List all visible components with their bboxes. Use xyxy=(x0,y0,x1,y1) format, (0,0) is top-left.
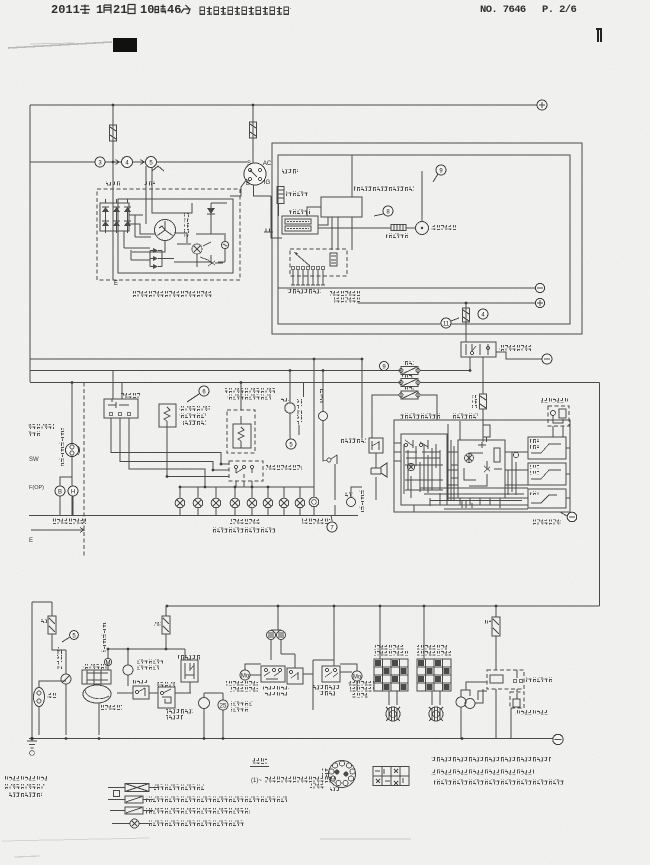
left feed jog xyxy=(32,602,52,735)
left note text xyxy=(5,776,47,781)
accessory bus 3 xyxy=(30,382,401,384)
wire ignition to coil primary xyxy=(254,185,283,238)
check terminal 5 xyxy=(146,157,157,168)
round connector symbol xyxy=(329,761,356,788)
svg-text:10: 10 xyxy=(140,3,154,17)
wiper motor unit box xyxy=(401,434,447,505)
power window breakers xyxy=(267,631,276,640)
zener diode xyxy=(207,208,215,214)
antenna motor pair xyxy=(456,697,466,707)
turn signal switch dashed box xyxy=(229,461,263,481)
label flasher 4way xyxy=(179,406,210,411)
svg-text:2011: 2011 xyxy=(51,3,80,17)
fuse (alternator feed) xyxy=(110,125,117,141)
wire S lead xyxy=(145,166,147,206)
svg-text:F(OP): F(OP) xyxy=(29,485,44,491)
wire B vertical through box xyxy=(112,189,114,273)
wire alternator feed xyxy=(112,105,114,189)
svg-text:B: B xyxy=(58,490,62,496)
wire fuse3 branch xyxy=(372,395,437,438)
lamp H xyxy=(68,486,78,496)
mirror motor right xyxy=(429,707,443,721)
label resistor 2 xyxy=(386,233,409,238)
wire relay supply xyxy=(465,303,467,342)
kanji 日 xyxy=(128,5,135,14)
label meter vertical xyxy=(57,647,62,669)
terminal label B(R) xyxy=(106,182,120,187)
label power antenna xyxy=(515,710,549,715)
wire fan down xyxy=(98,703,100,735)
battery minus terminal wiper xyxy=(567,512,577,522)
intermittent amp box xyxy=(458,440,505,498)
fax header center 日産自動車（株）お客さま相談室 xyxy=(199,6,291,17)
charge lamp xyxy=(221,241,228,248)
label mirror SW right xyxy=(417,645,447,650)
left margin labels xyxy=(28,424,54,429)
label resistor xyxy=(286,191,309,196)
ignition switch xyxy=(244,163,266,185)
assist side SW box xyxy=(322,666,340,682)
wire mirror left feeds xyxy=(380,606,397,705)
fuse heater xyxy=(51,602,53,616)
battery plus terminal 2 xyxy=(535,298,544,307)
wire fuse1 to relay xyxy=(420,370,470,372)
heater resistor box xyxy=(82,670,111,684)
lamp bus xyxy=(29,515,358,517)
amp resistor xyxy=(494,448,500,462)
antenna fuse xyxy=(495,606,497,617)
label wiper motor xyxy=(400,413,440,419)
label alternator (IC regulator) xyxy=(133,291,213,297)
label washer SW xyxy=(541,398,568,403)
oil pressure lamp xyxy=(285,403,295,413)
label spark plug xyxy=(287,289,321,295)
label door sw left xyxy=(302,519,330,525)
svg-text:IG: IG xyxy=(264,180,271,186)
faint scan streak xyxy=(8,42,112,48)
arrow xyxy=(134,160,144,165)
wire turn switch leads xyxy=(236,481,252,487)
diode bridge rectifiers xyxy=(102,207,131,226)
reverse lamp column wire xyxy=(71,383,73,516)
wire assist trunk xyxy=(333,606,335,666)
wire tach up xyxy=(421,171,423,222)
label fan motor vertical xyxy=(101,622,106,652)
wire ammeter down xyxy=(65,684,67,735)
AC relay box xyxy=(181,660,198,682)
legend fusible link symbol xyxy=(108,787,159,789)
amp capacitor xyxy=(464,442,502,486)
washer leads xyxy=(553,426,563,437)
label wiper SW xyxy=(533,520,561,525)
mirror SW grid right xyxy=(417,659,451,691)
check terminal 6 xyxy=(199,386,209,396)
condenser xyxy=(264,229,273,233)
label distributor xyxy=(330,291,360,296)
svg-text:NO. 7646: NO. 7646 xyxy=(480,4,526,16)
engine harness outer box xyxy=(272,143,582,334)
faint scan lines bottom xyxy=(320,838,411,840)
extra field wires xyxy=(124,215,151,260)
small pilcrow mark top right xyxy=(596,29,602,42)
wiper switch contact set low xyxy=(528,489,566,508)
battery minus bottom xyxy=(553,734,563,744)
fuse tail lamp xyxy=(480,394,487,409)
label L-low-R xyxy=(230,519,260,524)
door lamp column xyxy=(322,371,324,458)
wire minus feed xyxy=(278,287,535,289)
label oil pressure SW vertical xyxy=(297,399,302,425)
legend wattage circle xyxy=(112,823,149,825)
label reverse lamp SW vertical xyxy=(59,428,64,466)
label fan SW xyxy=(100,705,122,710)
kanji 月 xyxy=(104,5,111,14)
flasher unit (4way) box xyxy=(159,404,176,427)
switch column spine xyxy=(566,437,570,507)
driver side SW box xyxy=(261,666,285,682)
turn lamp distribution wire xyxy=(180,486,314,488)
reverse lamp switch xyxy=(66,444,79,457)
wire L lead xyxy=(152,166,158,203)
label power window OP right xyxy=(348,681,374,686)
wire relay output down xyxy=(469,357,471,371)
check terminal balloon xyxy=(70,631,79,640)
battery minus terminal xyxy=(535,283,544,292)
terminal E xyxy=(112,273,114,280)
power (IGN) relay box xyxy=(461,342,496,357)
wire ignition S lead left xyxy=(230,179,247,196)
internal harness wires xyxy=(394,443,528,506)
flasher (turn) dashed box xyxy=(227,410,255,453)
distributor dashed box xyxy=(290,249,347,276)
label reverse lamp xyxy=(52,519,86,525)
svg-text:H: H xyxy=(71,490,75,496)
check terminal 3 xyxy=(95,157,105,167)
label intermittent amp xyxy=(452,413,478,419)
wire fuse to ammeter xyxy=(52,634,66,674)
fuse (ignition feed) xyxy=(250,122,257,138)
battery plus terminal xyxy=(537,100,547,110)
svg-text:Mo: Mo xyxy=(241,674,250,680)
corner wire to earth xyxy=(560,512,567,516)
wire flasher lead xyxy=(167,427,229,477)
label mirror SW left xyxy=(374,645,404,650)
fan M motor xyxy=(104,658,111,665)
distributor pickup pair xyxy=(330,253,337,266)
fuse relay supply xyxy=(463,308,470,322)
label turn signal switch xyxy=(266,465,302,470)
mirror SW grid left xyxy=(374,659,408,691)
pilot lamp xyxy=(347,498,356,507)
battery minus terminal 3 xyxy=(542,354,552,364)
wire stator to regulator xyxy=(132,233,187,252)
right trunk vertical xyxy=(599,383,601,607)
wire field circuit xyxy=(152,203,227,234)
fan motor body xyxy=(83,685,111,703)
AC feed wire xyxy=(108,648,185,650)
svg-text:E: E xyxy=(29,538,33,544)
mirror motor left xyxy=(386,707,400,721)
transistor pair xyxy=(192,244,202,254)
label turn signal lamp xyxy=(213,527,275,533)
cut switch box xyxy=(133,686,149,699)
wire stator leads xyxy=(129,203,160,234)
fax header date text 2011年 1月21日 10時46分 xyxy=(51,3,190,17)
hazard switch label xyxy=(120,393,140,398)
buzzer trunk xyxy=(361,359,363,438)
wire lamp feeds xyxy=(60,477,73,515)
svg-text:AC: AC xyxy=(263,161,272,167)
svg-text:P. 2/6: P. 2/6 xyxy=(542,4,577,16)
air valve solenoid xyxy=(123,665,133,675)
amp transistor 1 xyxy=(465,454,474,463)
fuse AC xyxy=(165,606,167,616)
note title xyxy=(252,758,267,764)
arrow to alternator lead xyxy=(158,166,164,171)
wire mirror right feeds xyxy=(424,606,440,705)
terminal label S L xyxy=(144,182,155,187)
power window motor left xyxy=(240,670,250,680)
label buzzer vertical xyxy=(359,490,364,512)
svg-text:SW: SW xyxy=(29,457,39,463)
tach resistor xyxy=(391,225,406,231)
wire tail-fuse drop xyxy=(482,357,484,394)
wiper motor xyxy=(407,463,414,470)
room lamp unit xyxy=(34,688,45,707)
check terminal 5 (oil) xyxy=(286,439,296,449)
wire hazard leads nested elbows xyxy=(111,418,221,487)
relay switch box xyxy=(158,687,175,708)
label power window OP left xyxy=(226,681,258,686)
check terminal 7 xyxy=(331,515,332,521)
scanner black blob xyxy=(113,38,137,52)
wire bottom row xyxy=(174,262,225,267)
lamp B xyxy=(55,486,65,496)
buzzer horn xyxy=(371,463,387,477)
svg-text:M: M xyxy=(106,661,111,667)
kanji 時 xyxy=(155,5,166,14)
second window SW box xyxy=(287,668,303,684)
wiper motor contacts xyxy=(405,440,440,498)
svg-text:1: 1 xyxy=(96,3,103,17)
label room lamp vertical xyxy=(320,388,325,405)
top supply bus xyxy=(30,104,537,106)
ground symbol xyxy=(27,735,37,748)
check terminal 4 (lower) xyxy=(478,309,488,319)
label transistor igniter xyxy=(354,186,414,191)
label cut SW xyxy=(132,680,149,685)
span arrow xyxy=(31,528,84,533)
room lamp column xyxy=(313,359,315,497)
washer switch dashed box xyxy=(548,406,569,426)
label IGN SW xyxy=(282,169,298,174)
accessory bus 2 xyxy=(30,370,401,372)
bottom earth bus xyxy=(29,738,553,740)
amp feed resistor xyxy=(483,425,490,437)
assist motor xyxy=(352,671,362,681)
ballast resistor xyxy=(277,187,284,204)
spark plug leads xyxy=(291,270,325,285)
regulator label vertical xyxy=(184,213,189,237)
bottom feed bus xyxy=(167,605,600,607)
wire igniter to distributor leads xyxy=(332,217,352,250)
wiper switch contact set mid xyxy=(528,463,566,485)
power antenna dashed box xyxy=(510,692,524,708)
kanji 年 xyxy=(80,5,90,15)
check terminal 11 xyxy=(441,318,451,328)
label antenna SW xyxy=(526,677,552,682)
heater resistor label xyxy=(83,664,109,669)
wiper switch contact set high xyxy=(528,437,566,459)
door switch box right xyxy=(369,438,383,453)
distributor rotor xyxy=(296,254,310,266)
turn signal lamps row xyxy=(175,498,305,508)
wire AC relay xyxy=(185,649,190,693)
flasher (turn) unit xyxy=(233,424,251,448)
fuse 9A xyxy=(401,391,418,399)
wiper main box xyxy=(394,420,570,512)
wire hazard feed xyxy=(113,371,122,400)
svg-text:E: E xyxy=(114,281,118,287)
reverse dashed column xyxy=(83,383,85,559)
distributor cap terminals xyxy=(291,266,325,270)
svg-text:11: 11 xyxy=(443,322,450,328)
output transistor xyxy=(208,255,223,266)
alternator dashed enclosure xyxy=(97,189,240,280)
oil pressure column xyxy=(289,371,291,440)
square connector symbol xyxy=(373,767,409,786)
check terminal 9 xyxy=(436,165,446,175)
power window trunk xyxy=(277,606,279,630)
engine harness inner box xyxy=(278,155,570,324)
svg-text:21: 21 xyxy=(113,3,127,17)
svg-text:B: B xyxy=(246,181,250,187)
fuse 15A xyxy=(401,379,418,387)
tachometer xyxy=(416,222,429,235)
door switch contacts xyxy=(327,458,331,462)
wires between xyxy=(117,692,191,694)
ammeter xyxy=(61,674,71,684)
accessory bus 1 xyxy=(30,358,362,360)
label flasher (turn) xyxy=(225,388,275,393)
hazard switch box xyxy=(104,399,138,418)
label assist SW xyxy=(313,685,339,690)
svg-text:S: S xyxy=(247,161,251,167)
svg-text:Mo: Mo xyxy=(353,675,362,681)
right note text 3 lines xyxy=(431,757,551,763)
legend plain fuse xyxy=(110,810,153,812)
charge bus wire xyxy=(30,161,247,163)
label air solenoid valve xyxy=(166,709,193,714)
left main vertical wire xyxy=(29,105,31,382)
kanji 分 xyxy=(181,5,190,14)
diode trio column xyxy=(153,248,158,269)
AC relay label xyxy=(178,655,200,660)
wire plus feed xyxy=(358,302,535,304)
svg-text:25: 25 xyxy=(220,704,227,710)
wire relay to minus xyxy=(496,352,542,359)
transistor igniter box xyxy=(321,197,362,217)
magnet clutch xyxy=(218,700,228,710)
alternator inner case box xyxy=(118,199,233,273)
label driver SW xyxy=(262,686,289,691)
arrow xyxy=(107,160,119,165)
ignition coil label xyxy=(289,209,310,214)
svg-text:46: 46 xyxy=(167,3,181,17)
check terminal 4 xyxy=(122,157,133,168)
label power relay xyxy=(499,345,531,351)
wire coil to igniter xyxy=(307,207,328,225)
amp transistor 2 xyxy=(484,461,490,472)
solenoid valve xyxy=(199,698,210,709)
ignition coil box xyxy=(282,216,318,234)
diode bridge frame xyxy=(100,203,129,231)
wire resistor down xyxy=(278,204,280,216)
fuse 10A xyxy=(401,367,418,375)
label door sw right xyxy=(340,438,366,443)
check terminal 8 xyxy=(383,206,393,216)
label relay SW xyxy=(157,682,175,687)
wire buzzer leads xyxy=(375,453,377,500)
check terminal 9 (bus) xyxy=(380,362,389,371)
legend fuse symbol xyxy=(108,799,153,801)
wire fuse2 to right trunk xyxy=(420,382,600,384)
antenna relay dashed box xyxy=(487,670,524,689)
label tachometer xyxy=(431,225,457,230)
wire lamp drops xyxy=(180,487,300,498)
wire ignition feed xyxy=(252,105,254,164)
svg-text:(1)~: (1)~ xyxy=(251,778,262,784)
wire coil HT to tach xyxy=(318,227,415,229)
stator windings xyxy=(155,220,176,241)
